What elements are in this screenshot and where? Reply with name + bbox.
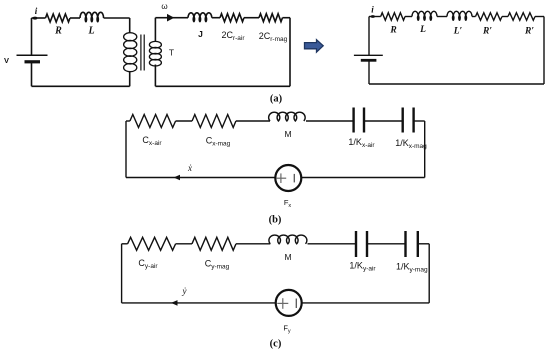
- svg-text:ẋ: ẋ: [187, 163, 192, 173]
- svg-text:J: J: [198, 29, 203, 39]
- svg-text:R: R: [389, 26, 396, 36]
- svg-text:M: M: [284, 129, 291, 139]
- svg-text:R′: R′: [524, 27, 534, 37]
- svg-text:M: M: [284, 252, 291, 262]
- svg-text:L: L: [87, 26, 94, 37]
- svg-text:(b): (b): [269, 215, 282, 226]
- svg-text:V: V: [4, 56, 9, 65]
- svg-text:T: T: [169, 48, 174, 58]
- svg-text:L′: L′: [453, 27, 463, 37]
- svg-text:R: R: [54, 26, 62, 37]
- svg-text:ω: ω: [161, 2, 167, 11]
- svg-text:R′: R′: [482, 27, 492, 37]
- svg-text:(c): (c): [270, 339, 282, 350]
- svg-text:(a): (a): [270, 94, 283, 105]
- svg-text:L: L: [419, 25, 426, 35]
